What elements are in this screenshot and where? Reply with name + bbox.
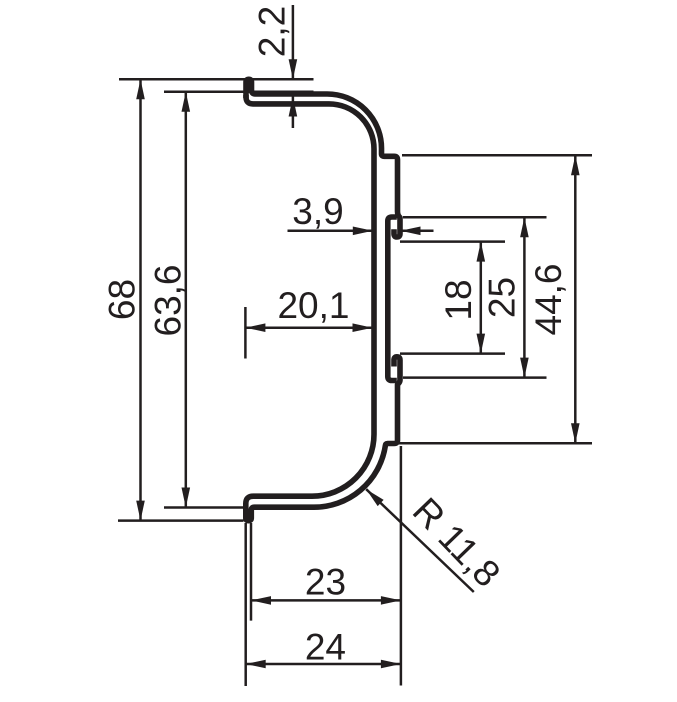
svg-text:44,6: 44,6 <box>528 263 569 335</box>
svg-text:63,6: 63,6 <box>148 264 189 336</box>
svg-text:25: 25 <box>482 277 523 318</box>
svg-text:2,2: 2,2 <box>252 6 293 57</box>
svg-text:68: 68 <box>101 279 142 320</box>
svg-text:23: 23 <box>305 561 346 602</box>
svg-text:20,1: 20,1 <box>277 285 349 326</box>
svg-text:3,9: 3,9 <box>292 191 343 232</box>
svg-text:24: 24 <box>305 626 346 667</box>
svg-text:18: 18 <box>438 279 479 320</box>
